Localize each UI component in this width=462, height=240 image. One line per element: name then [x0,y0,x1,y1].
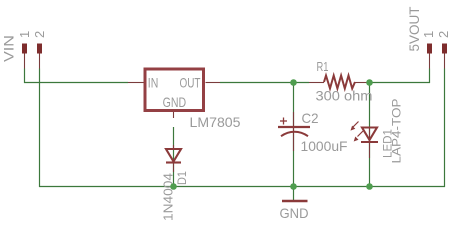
svg-text:D1: D1 [175,171,189,185]
resistor R1 [309,76,370,89]
svg-text:1: 1 [17,31,32,38]
junction LED top [366,79,373,86]
wire VIN pin1 to IN (horizontal net) [24,82,128,84]
wire GND symbol stub [293,186,295,200]
junction GND rail [290,183,297,190]
svg-text:OUT: OUT [180,75,201,91]
svg-text:1000uF: 1000uF [301,138,348,154]
wire D1 branch vertical [173,127,175,187]
wire VIN pin1 vertical [24,69,26,84]
svg-text:1: 1 [421,31,436,38]
junction D1 bottom [170,183,177,190]
wire C2 branch vertical [293,82,295,187]
pin GND of U1 [173,112,175,118]
junction LED bottom [366,183,373,190]
connector JP1 pad 2 (VIN) [37,44,42,54]
wire R1 to 5VOUT pin1 (horizontal net) [370,82,431,84]
svg-text:2: 2 [32,31,47,38]
wire 5VOUT pin1 vertical [429,69,431,84]
diode D1 [166,145,181,172]
connector JP1 pad 1 (VIN) [22,44,27,54]
svg-text:R1: R1 [317,59,329,74]
connector JP2 pad 2 (5VOUT) [442,44,447,54]
wire 5VOUT pin2 vertical to bottom rail [444,69,446,188]
pin stub VIN 2 [39,54,41,69]
svg-text:VIN: VIN [1,35,17,62]
svg-text:GND: GND [280,205,309,221]
capacitor C2 [278,112,310,151]
svg-text:IN: IN [148,75,159,91]
pin stub 5VOUT 1 [429,54,431,69]
pin stub VIN 1 [24,54,26,69]
svg-text:5VOUT: 5VOUT [406,6,422,51]
wire VIN pin2 vertical to bottom rail [39,69,41,188]
svg-text:GND: GND [163,94,187,110]
svg-text:300 ohm: 300 ohm [316,88,373,104]
ground symbol [282,200,308,203]
svg-text:C2: C2 [302,110,319,126]
svg-text:LAP4-TOP: LAP4-TOP [390,99,404,164]
regulator U1 box [145,69,204,111]
pin stub 5VOUT 2 [444,54,446,69]
pin OUT of U1 [206,82,221,84]
svg-text:LM7805: LM7805 [190,114,241,130]
svg-text:2: 2 [436,31,451,38]
pin IN of U1 [128,82,144,84]
junction C2 top [290,79,297,86]
wire bottom ground rail [39,186,445,188]
wire OUT to R1 (horizontal net) [220,82,309,84]
svg-text:1N4004: 1N4004 [161,173,176,221]
wire LED1 branch vertical [369,82,371,187]
connector JP2 pad 1 (5VOUT) [427,44,432,54]
LED LED1 [351,122,379,159]
